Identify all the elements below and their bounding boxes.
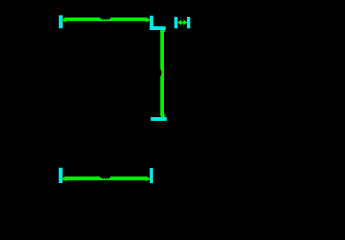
wire bottom horizontal net with end arrows: [61, 176, 151, 181]
pin terminal L-connector (right end of top net, corner to vertical net): [150, 16, 166, 30]
wire top horizontal net with end arrows: [61, 17, 151, 22]
net label occlusion (dark text over bottom wire): [100, 170, 110, 179]
wire vertical net with end arrows: [160, 26, 166, 121]
pin terminal bar (left end of bottom net): [59, 168, 63, 183]
net label occlusion (dark blob on vertical wire): [155, 68, 162, 77]
component U1 right pin bar: [187, 17, 190, 29]
component U1 left pin bar: [174, 17, 177, 29]
net label occlusion (dark text over top wire): [100, 11, 110, 20]
pin terminal bar (bottom end of vertical net, drawn over arrow): [151, 117, 167, 121]
pin terminal bar (right end of bottom net): [150, 168, 153, 183]
component U1 short net with outward end arrows (bowtie): [177, 20, 187, 26]
pin terminal bar (left end of top net): [59, 15, 63, 28]
